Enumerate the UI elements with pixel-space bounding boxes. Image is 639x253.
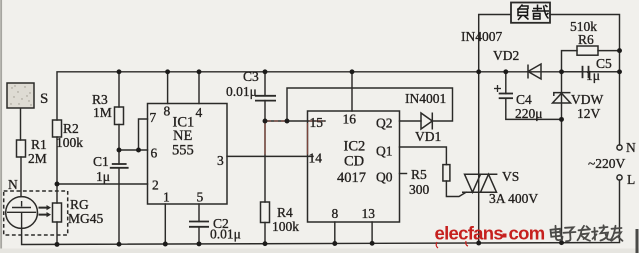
svg-text:3: 3 xyxy=(217,153,224,168)
svg-text:220μ: 220μ xyxy=(515,106,543,121)
svg-text:7: 7 xyxy=(150,110,157,125)
svg-text:VD1: VD1 xyxy=(415,129,441,144)
svg-text:R6: R6 xyxy=(578,32,594,47)
svg-text:VS: VS xyxy=(502,169,519,184)
svg-text:2: 2 xyxy=(152,178,159,193)
svg-text:12V: 12V xyxy=(577,106,601,121)
svg-text:RG: RG xyxy=(70,197,89,212)
svg-text:555: 555 xyxy=(172,143,194,159)
svg-text:Q1: Q1 xyxy=(376,144,393,159)
svg-text:1: 1 xyxy=(163,190,170,205)
svg-text:14: 14 xyxy=(309,151,323,166)
svg-text:4: 4 xyxy=(196,105,203,120)
svg-text:100k: 100k xyxy=(272,219,299,234)
svg-text:C3: C3 xyxy=(243,69,259,84)
svg-text:5: 5 xyxy=(197,190,204,205)
svg-text:IN4007: IN4007 xyxy=(461,29,502,44)
svg-text:2M: 2M xyxy=(28,151,47,166)
svg-text:6: 6 xyxy=(151,146,158,161)
svg-text:3A 400V: 3A 400V xyxy=(489,191,538,206)
svg-text:L: L xyxy=(627,172,635,187)
svg-text:8: 8 xyxy=(164,104,171,119)
svg-text:100k: 100k xyxy=(56,135,83,150)
svg-text:MG45: MG45 xyxy=(68,211,104,226)
svg-text:elecfans: elecfans xyxy=(435,223,504,244)
svg-text:R5: R5 xyxy=(411,167,427,182)
svg-text:4017: 4017 xyxy=(337,170,366,186)
svg-text:8: 8 xyxy=(332,206,339,221)
svg-text:com: com xyxy=(509,223,545,244)
svg-text:16: 16 xyxy=(343,112,357,127)
svg-text:Q0: Q0 xyxy=(376,170,393,185)
svg-text:0.01μ: 0.01μ xyxy=(226,84,257,99)
svg-text:N: N xyxy=(626,140,636,155)
svg-text:R2: R2 xyxy=(63,121,79,136)
svg-text:1M: 1M xyxy=(93,105,112,120)
svg-text:Q2: Q2 xyxy=(376,116,393,131)
svg-text:IN4001: IN4001 xyxy=(405,91,446,106)
svg-text:~220V: ~220V xyxy=(588,156,626,171)
svg-text:VDW: VDW xyxy=(571,92,603,107)
svg-text:R4: R4 xyxy=(277,205,293,220)
svg-text:IC2: IC2 xyxy=(344,139,366,155)
svg-text:S: S xyxy=(40,91,48,107)
svg-text:13: 13 xyxy=(362,206,376,221)
svg-text:300: 300 xyxy=(409,182,430,197)
svg-text:N: N xyxy=(8,177,18,192)
svg-text:1μ: 1μ xyxy=(586,68,600,83)
svg-text:C4: C4 xyxy=(516,92,532,107)
svg-text:15: 15 xyxy=(310,115,324,130)
svg-text:C1: C1 xyxy=(93,154,109,169)
svg-text:R1: R1 xyxy=(31,137,47,152)
svg-text:CD: CD xyxy=(344,154,364,170)
svg-text:1μ: 1μ xyxy=(96,169,110,184)
svg-text:0.01μ: 0.01μ xyxy=(210,227,241,242)
svg-text:VD2: VD2 xyxy=(493,48,519,63)
